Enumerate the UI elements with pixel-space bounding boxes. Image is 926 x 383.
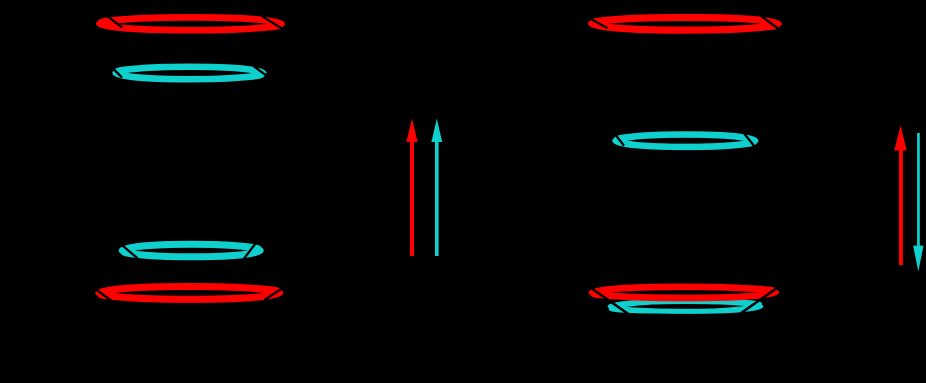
right cone bottom red Fermi ring [592,287,776,298]
left cone lower cyan Fermi ring right black edge crossing [244,243,256,259]
middle cyan up arrow [431,119,442,256]
right cone middle cyan Fermi ring left black edge crossing [613,131,625,146]
right cone bottom cyan Fermi ring [610,302,761,312]
right cyan down arrow [913,133,923,272]
right cone top red Fermi ring [592,17,779,30]
right cone top red Fermi ring right black edge crossing [761,16,780,30]
left cone upper cyan Fermi ring left black edge crossing [111,67,122,78]
right cone middle cyan Fermi ring right black edge crossing [742,131,755,147]
left cone upper cyan Fermi ring right black edge crossing [253,65,269,77]
right cone middle cyan Fermi ring [616,135,756,147]
left cone lower cyan Fermi ring left black edge crossing [121,244,138,258]
right cone bottom rim front arc (black bowl) [592,288,777,316]
right cone top red Fermi ring left black edge crossing [587,17,608,28]
left cone bottom red Fermi ring right black edge crossing [265,288,283,300]
left cone bottom red Fermi ring left black edge crossing [94,288,112,301]
left cone top red Fermi ring right black edge crossing [262,16,285,30]
right red up arrow [894,125,906,265]
middle red up arrow [406,119,417,256]
left cone upper cyan Fermi ring [116,67,264,80]
left cone top red Fermi ring [99,17,281,30]
left cone bottom red Fermi ring [99,287,280,300]
left cone top red Fermi ring left black edge crossing [108,16,123,27]
left cone lower cyan Fermi ring [122,244,260,257]
